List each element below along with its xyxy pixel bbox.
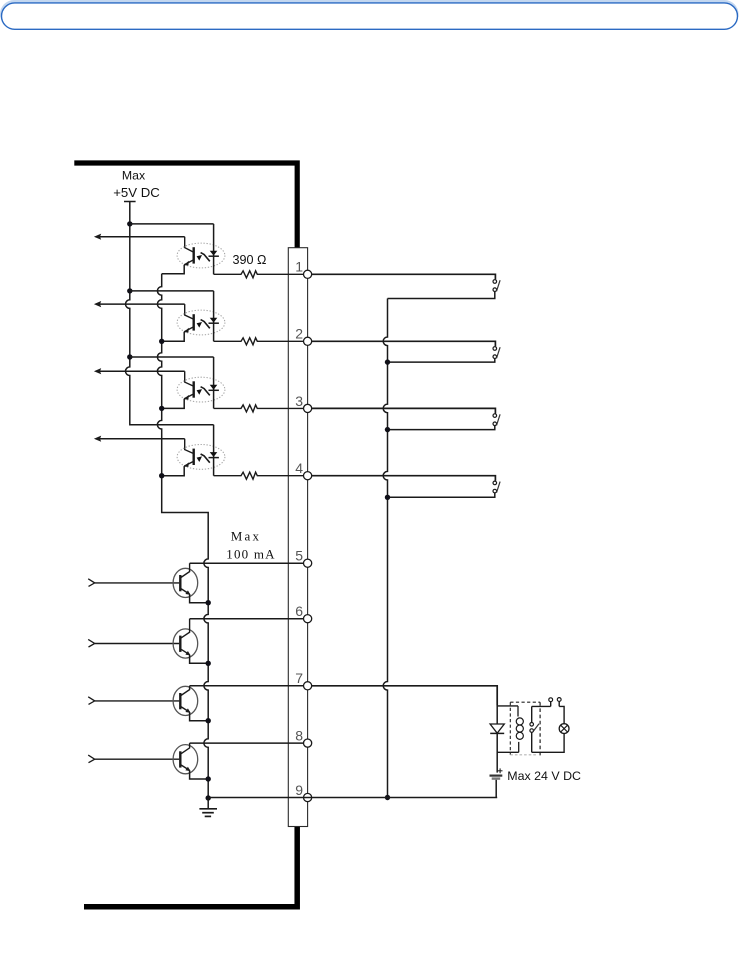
wire LED3 anode	[130, 356, 214, 358]
optocoupler U3 LED	[209, 357, 219, 408]
optocoupler U2 package	[177, 310, 225, 335]
optocoupler U4 light arrows	[197, 454, 210, 463]
junction rbus-S4	[385, 495, 390, 500]
wire coil bottom	[497, 751, 519, 753]
wire LED1 anode	[130, 223, 214, 225]
wire Q4 base	[95, 758, 180, 760]
svg-text:1: 1	[295, 259, 303, 275]
wire U1 emitter	[162, 265, 185, 274]
wire U4 emitter	[162, 466, 185, 476]
svg-text:Max: Max	[231, 528, 261, 543]
wire Q2 base	[95, 643, 180, 645]
wire coil top	[497, 705, 518, 707]
terminal B	[557, 698, 561, 707]
input chevron IN2	[88, 639, 95, 647]
resistor R3	[214, 405, 304, 412]
junction gbus-Q3	[206, 718, 211, 723]
pin 7	[295, 670, 311, 690]
lamp	[559, 724, 569, 734]
junction gbus-Q1	[206, 600, 211, 605]
optocoupler U2 phototransistor	[184, 314, 194, 332]
svg-text:100 mA: 100 mA	[226, 547, 275, 562]
transistor Q1	[173, 563, 208, 603]
pin 6	[295, 603, 311, 623]
optocoupler U4 phototransistor	[184, 449, 194, 467]
resistor R1	[214, 271, 304, 278]
junction gbus-Q2	[206, 661, 211, 666]
transistor Q2	[173, 619, 208, 664]
transistor Q4	[173, 743, 208, 779]
label Max 100 mA	[226, 528, 275, 561]
optocoupler U3 phototransistor	[184, 381, 194, 399]
resistor R2	[214, 338, 304, 345]
svg-text:9: 9	[295, 782, 303, 798]
optocoupler U1 phototransistor	[184, 247, 194, 265]
wire lamp top	[559, 706, 564, 723]
pin 9	[295, 782, 311, 802]
relay contact	[530, 706, 539, 752]
junction rail-anode1	[127, 221, 132, 226]
pin 2	[295, 326, 311, 346]
svg-text:Max: Max	[122, 168, 146, 182]
device frame top	[74, 163, 297, 248]
wire pin7	[190, 685, 304, 687]
optocoupler U1 package	[177, 243, 225, 268]
optocoupler U4 package	[177, 445, 225, 470]
svg-text:5: 5	[295, 548, 303, 564]
resistor R4	[214, 472, 304, 479]
switch S3	[312, 408, 500, 429]
optocoupler U3 package	[177, 377, 225, 402]
junction rail-anode2	[127, 288, 132, 293]
svg-text:Max 24 V DC: Max 24 V DC	[507, 769, 581, 783]
optocoupler U3 light arrows	[197, 387, 210, 396]
svg-text:2: 2	[295, 326, 303, 342]
terminal A	[549, 698, 553, 707]
battery B1 Max 24V	[490, 768, 503, 797]
wire Q1 base	[95, 582, 180, 584]
svg-text:390 Ω: 390 Ω	[233, 253, 267, 267]
pin 1	[295, 259, 311, 279]
connector body	[288, 248, 307, 827]
pin 4	[295, 460, 311, 480]
junction gbus-Q4	[206, 776, 211, 781]
switch S4	[312, 476, 500, 498]
wire right return bus	[383, 299, 387, 798]
optocoupler U2 LED	[209, 291, 219, 341]
wire pin8	[190, 742, 304, 744]
ground symbol	[199, 798, 217, 816]
relay box dashed	[510, 702, 540, 757]
optocoupler U4 LED	[209, 425, 219, 476]
device frame bottom	[84, 827, 297, 907]
input chevron IN1	[88, 579, 95, 587]
wire pin5	[190, 562, 304, 564]
pin 3	[295, 393, 311, 413]
diode D1	[490, 706, 504, 773]
signal arrow OUT3	[94, 368, 194, 386]
wire U3 emitter	[162, 399, 185, 409]
junction bus-U2	[159, 339, 164, 344]
pin 5	[295, 548, 311, 568]
label 390 ohm	[233, 253, 267, 267]
transistor Q3	[173, 686, 208, 721]
svg-text:+5V DC: +5V DC	[113, 185, 160, 200]
label Max 24 V DC	[507, 769, 581, 783]
svg-text:4: 4	[295, 460, 303, 476]
svg-text:6: 6	[295, 603, 303, 619]
signal arrow OUT2	[94, 301, 194, 319]
supply terminal	[124, 201, 136, 203]
svg-text:8: 8	[295, 728, 303, 744]
wire pin9	[208, 797, 497, 799]
wire LED2 anode	[130, 290, 214, 292]
optocoupler U2 light arrows	[197, 320, 210, 329]
wire +5V rail	[126, 202, 214, 425]
header bar	[0, 0, 739, 29]
signal arrow OUT1	[94, 234, 194, 253]
wire contact top	[532, 705, 551, 707]
svg-text:7: 7	[295, 670, 303, 686]
pin 8	[295, 728, 311, 748]
wire emitter-ground bus	[157, 274, 208, 798]
signal arrow OUT4	[94, 436, 194, 454]
wire U2 emitter	[162, 332, 185, 342]
wire Q3 base	[95, 700, 180, 702]
label Max +5V DC	[113, 168, 160, 200]
svg-text:3: 3	[295, 393, 303, 409]
input chevron IN4	[88, 755, 95, 763]
optocoupler U1 light arrows	[197, 253, 210, 262]
switch S1	[312, 274, 500, 298]
relay coil K1	[516, 706, 523, 752]
wire lamp bottom	[532, 734, 564, 753]
wire pin6	[190, 618, 304, 620]
junction bus-U3	[159, 406, 164, 411]
input chevron IN3	[88, 697, 95, 705]
wire pin7 feed	[312, 686, 498, 706]
junction rbus-S3	[385, 427, 390, 432]
optocoupler U1 LED	[209, 224, 219, 274]
junction rbus-pin9	[385, 795, 390, 800]
junction rbus-S2	[385, 359, 390, 364]
junction rail-anode3	[127, 354, 132, 359]
junction bus-U4	[159, 473, 164, 478]
switch S2	[312, 341, 500, 362]
junction ground	[206, 795, 211, 800]
